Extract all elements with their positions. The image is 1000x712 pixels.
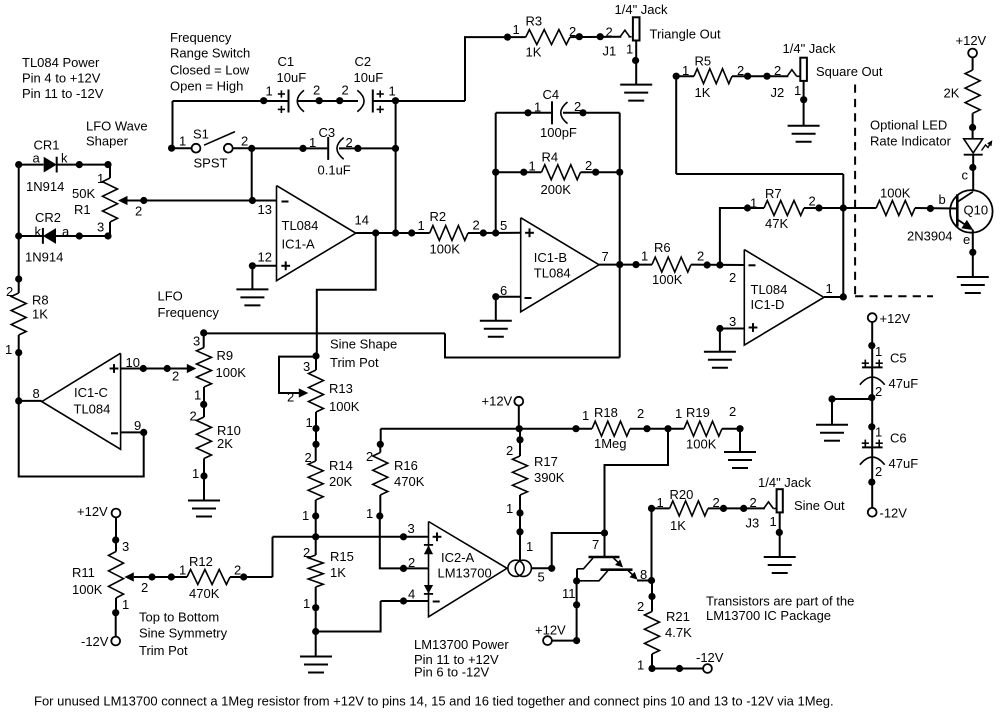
- svg-text:R16: R16: [394, 458, 418, 473]
- svg-text:1: 1: [770, 514, 777, 529]
- svg-text:2: 2: [303, 545, 310, 560]
- svg-text:8: 8: [33, 386, 40, 401]
- svg-text:2: 2: [366, 449, 373, 464]
- svg-text:1: 1: [389, 84, 396, 99]
- svg-text:2K: 2K: [217, 436, 233, 451]
- svg-text:3: 3: [303, 359, 310, 374]
- svg-text:1: 1: [97, 171, 104, 186]
- svg-text:1: 1: [306, 415, 313, 430]
- svg-text:1K: 1K: [695, 85, 711, 100]
- svg-text:3: 3: [122, 539, 129, 554]
- svg-text:k: k: [61, 151, 68, 166]
- svg-text:1: 1: [309, 135, 316, 150]
- svg-text:13: 13: [258, 202, 272, 217]
- svg-text:Trim Pot: Trim Pot: [139, 643, 188, 658]
- svg-text:2: 2: [809, 194, 816, 209]
- svg-text:1K: 1K: [330, 565, 346, 580]
- svg-text:C2: C2: [355, 54, 372, 69]
- svg-text:S1: S1: [193, 127, 209, 142]
- svg-text:2N3904: 2N3904: [907, 229, 953, 244]
- svg-text:Closed = Low: Closed = Low: [170, 63, 250, 78]
- svg-text:R2: R2: [430, 209, 447, 224]
- svg-text:TL084: TL084: [534, 266, 571, 281]
- svg-text:100K: 100K: [652, 272, 683, 287]
- svg-text:-12V: -12V: [81, 634, 109, 649]
- svg-text:3: 3: [193, 334, 200, 349]
- svg-text:1K: 1K: [670, 518, 686, 533]
- svg-text:For unused LM13700 connect a 1: For unused LM13700 connect a 1Meg resist…: [34, 694, 834, 709]
- svg-text:2: 2: [697, 249, 704, 264]
- svg-text:Square Out: Square Out: [816, 64, 883, 79]
- svg-text:10uF: 10uF: [354, 70, 384, 85]
- svg-text:R13: R13: [329, 381, 353, 396]
- svg-text:1: 1: [637, 658, 644, 673]
- svg-text:1: 1: [418, 218, 425, 233]
- svg-text:1: 1: [529, 159, 536, 174]
- svg-text:9: 9: [134, 418, 141, 433]
- svg-text:1Meg: 1Meg: [594, 436, 627, 451]
- svg-text:IC2-A: IC2-A: [441, 550, 475, 565]
- svg-text:LM13700 IC Package: LM13700 IC Package: [706, 608, 831, 623]
- svg-text:2: 2: [313, 83, 320, 98]
- svg-text:47uF: 47uF: [889, 456, 919, 471]
- svg-text:2: 2: [729, 404, 736, 419]
- svg-text:2: 2: [234, 563, 241, 578]
- svg-text:2: 2: [750, 495, 757, 510]
- svg-text:2: 2: [287, 390, 294, 405]
- svg-text:LFO Wave: LFO Wave: [86, 119, 148, 134]
- svg-text:2: 2: [6, 284, 13, 299]
- svg-text:1: 1: [875, 344, 882, 359]
- svg-text:J1: J1: [603, 44, 617, 59]
- svg-text:1: 1: [750, 196, 757, 211]
- svg-text:1N914: 1N914: [26, 179, 64, 194]
- svg-text:C3: C3: [319, 125, 336, 140]
- svg-text:1N914: 1N914: [25, 250, 63, 265]
- svg-text:Pin 11 to -12V: Pin 11 to -12V: [22, 86, 104, 101]
- svg-text:1: 1: [826, 281, 833, 296]
- svg-text:R7: R7: [765, 186, 782, 201]
- svg-text:R6: R6: [654, 240, 671, 255]
- svg-text:100K: 100K: [72, 582, 103, 597]
- svg-text:1: 1: [513, 22, 520, 37]
- svg-text:2: 2: [342, 83, 349, 98]
- svg-text:R9: R9: [217, 348, 234, 363]
- svg-text:1: 1: [626, 41, 633, 56]
- svg-text:R17: R17: [534, 454, 558, 469]
- svg-text:1/4" Jack: 1/4" Jack: [615, 2, 669, 17]
- svg-text:2: 2: [574, 99, 581, 114]
- svg-text:R21: R21: [666, 609, 690, 624]
- svg-text:2: 2: [346, 135, 353, 150]
- svg-text:1K: 1K: [32, 307, 48, 322]
- svg-text:C1: C1: [278, 54, 295, 69]
- svg-text:47K: 47K: [765, 216, 788, 231]
- svg-text:100K: 100K: [216, 365, 247, 380]
- svg-text:IC1-A: IC1-A: [282, 236, 316, 251]
- svg-text:+12V: +12V: [535, 623, 566, 638]
- svg-text:J2: J2: [771, 85, 785, 100]
- svg-text:4: 4: [408, 587, 415, 602]
- svg-text:6: 6: [500, 283, 507, 298]
- svg-text:12: 12: [258, 250, 272, 265]
- svg-text:100K: 100K: [329, 399, 360, 414]
- svg-text:2: 2: [774, 63, 781, 78]
- svg-text:1: 1: [303, 596, 310, 611]
- svg-text:SPST: SPST: [194, 156, 228, 171]
- svg-text:R18: R18: [594, 405, 618, 420]
- svg-text:7: 7: [592, 537, 599, 552]
- svg-text:20K: 20K: [329, 474, 352, 489]
- svg-text:4.7K: 4.7K: [665, 625, 692, 640]
- svg-text:1: 1: [366, 506, 373, 521]
- svg-text:1: 1: [122, 597, 129, 612]
- svg-text:2: 2: [172, 369, 179, 384]
- svg-text:Range Switch: Range Switch: [170, 46, 250, 61]
- svg-text:R1: R1: [74, 202, 91, 217]
- svg-text:2: 2: [729, 270, 736, 285]
- svg-text:2: 2: [875, 384, 882, 399]
- svg-text:Rate Indicator: Rate Indicator: [870, 134, 952, 149]
- svg-text:R8: R8: [32, 293, 49, 308]
- svg-text:Pin 4 to +12V: Pin 4 to +12V: [22, 71, 101, 86]
- svg-text:5: 5: [500, 218, 507, 233]
- svg-text:0.1uF: 0.1uF: [318, 163, 351, 178]
- svg-text:a: a: [33, 151, 41, 166]
- svg-text:TL084: TL084: [751, 282, 788, 297]
- svg-text:+12V: +12V: [77, 504, 108, 519]
- svg-text:2: 2: [141, 580, 148, 595]
- svg-text:7: 7: [602, 249, 609, 264]
- svg-text:e: e: [963, 232, 970, 247]
- svg-text:R4: R4: [542, 150, 559, 165]
- svg-text:R11: R11: [72, 565, 95, 580]
- svg-text:TL084: TL084: [282, 218, 319, 233]
- svg-text:R5: R5: [695, 54, 712, 69]
- svg-text:CR2: CR2: [35, 210, 61, 225]
- svg-text:1: 1: [194, 388, 201, 403]
- svg-text:Frequency: Frequency: [158, 305, 220, 320]
- svg-text:2: 2: [637, 599, 644, 614]
- svg-text:2: 2: [737, 63, 744, 78]
- svg-text:Frequency: Frequency: [170, 30, 232, 45]
- svg-text:1: 1: [266, 84, 273, 99]
- svg-text:2: 2: [190, 409, 197, 424]
- svg-text:390K: 390K: [534, 470, 565, 485]
- svg-text:Pin 6 to -12V: Pin 6 to -12V: [414, 665, 489, 680]
- svg-text:LM13700 Power: LM13700 Power: [414, 637, 509, 652]
- svg-text:3: 3: [408, 521, 415, 536]
- svg-text:b: b: [939, 192, 946, 207]
- svg-text:100K: 100K: [880, 186, 911, 201]
- svg-text:-12V: -12V: [696, 650, 724, 665]
- svg-text:Triangle Out: Triangle Out: [650, 27, 721, 42]
- svg-text:2: 2: [585, 158, 592, 173]
- svg-text:2: 2: [506, 443, 513, 458]
- svg-text:2: 2: [135, 204, 142, 219]
- svg-text:+12V: +12V: [880, 311, 911, 326]
- svg-text:1: 1: [534, 100, 541, 115]
- svg-text:Sine Out: Sine Out: [794, 498, 845, 513]
- svg-text:1: 1: [641, 249, 648, 264]
- svg-text:LM13700: LM13700: [438, 566, 492, 581]
- svg-text:Sine Shape: Sine Shape: [330, 337, 397, 352]
- svg-text:Shaper: Shaper: [86, 134, 129, 149]
- svg-text:1/4" Jack: 1/4" Jack: [758, 475, 812, 490]
- svg-text:1: 1: [794, 83, 801, 98]
- svg-text:3: 3: [729, 314, 736, 329]
- svg-text:k: k: [35, 224, 42, 239]
- svg-text:1: 1: [682, 63, 689, 78]
- svg-text:Transistors are part of the: Transistors are part of the: [706, 594, 854, 609]
- svg-text:10: 10: [126, 355, 140, 370]
- svg-text:2: 2: [473, 218, 480, 233]
- svg-text:IC1-B: IC1-B: [534, 250, 567, 265]
- svg-text:14: 14: [355, 213, 369, 228]
- svg-text:100K: 100K: [430, 242, 461, 257]
- svg-text:Open = High: Open = High: [170, 78, 243, 93]
- svg-text:TL084 Power: TL084 Power: [22, 55, 100, 70]
- svg-text:C4: C4: [543, 87, 560, 102]
- svg-text:1: 1: [657, 495, 664, 510]
- svg-text:a: a: [62, 224, 70, 239]
- svg-text:5: 5: [538, 570, 545, 585]
- svg-text:1: 1: [526, 539, 533, 554]
- svg-text:3: 3: [97, 220, 104, 235]
- svg-text:Trim Pot: Trim Pot: [330, 355, 379, 370]
- svg-text:200K: 200K: [541, 182, 572, 197]
- svg-text:R15: R15: [330, 549, 354, 564]
- svg-text:R20: R20: [670, 487, 694, 502]
- svg-text:IC1-D: IC1-D: [751, 297, 785, 312]
- svg-text:1: 1: [192, 466, 199, 481]
- svg-text:2: 2: [875, 464, 882, 479]
- svg-text:2: 2: [241, 134, 248, 149]
- svg-text:c: c: [962, 168, 969, 183]
- svg-text:2: 2: [606, 24, 613, 39]
- svg-text:100pF: 100pF: [540, 125, 577, 140]
- svg-text:2: 2: [713, 495, 720, 510]
- svg-text:Q10: Q10: [964, 203, 989, 218]
- svg-text:R19: R19: [686, 405, 710, 420]
- svg-text:1: 1: [179, 134, 186, 149]
- svg-text:R3: R3: [526, 14, 543, 29]
- svg-text:LFO: LFO: [158, 289, 183, 304]
- svg-text:+12V: +12V: [956, 33, 987, 48]
- svg-text:-12V: -12V: [880, 506, 908, 521]
- svg-text:47uF: 47uF: [889, 376, 919, 391]
- svg-text:100K: 100K: [686, 437, 717, 452]
- svg-text:C5: C5: [890, 351, 907, 366]
- svg-text:C6: C6: [890, 431, 907, 446]
- svg-text:Optional LED: Optional LED: [870, 118, 947, 133]
- svg-text:1: 1: [675, 406, 682, 421]
- svg-text:1: 1: [302, 508, 309, 523]
- svg-text:J3: J3: [746, 516, 760, 531]
- svg-text:R12: R12: [189, 554, 213, 569]
- svg-text:Top to Bottom: Top to Bottom: [139, 610, 219, 625]
- svg-text:2K: 2K: [944, 86, 960, 101]
- svg-text:2: 2: [305, 450, 312, 465]
- svg-text:1: 1: [875, 425, 882, 440]
- svg-text:2: 2: [637, 406, 644, 421]
- svg-text:11: 11: [562, 586, 576, 601]
- svg-text:10uF: 10uF: [277, 70, 307, 85]
- svg-text:1: 1: [582, 408, 589, 423]
- svg-text:IC1-C: IC1-C: [74, 385, 108, 400]
- svg-text:2: 2: [569, 24, 576, 39]
- svg-text:1: 1: [179, 563, 186, 578]
- svg-text:+12V: +12V: [482, 394, 513, 409]
- svg-text:Sine Symmetry: Sine Symmetry: [139, 626, 228, 641]
- svg-text:2: 2: [408, 555, 415, 570]
- svg-text:1K: 1K: [526, 45, 542, 60]
- svg-text:50K: 50K: [72, 186, 95, 201]
- svg-text:470K: 470K: [189, 586, 220, 601]
- svg-text:1/4" Jack: 1/4" Jack: [783, 41, 837, 56]
- svg-text:8: 8: [640, 567, 647, 582]
- svg-text:1: 1: [506, 501, 513, 516]
- svg-text:470K: 470K: [394, 474, 425, 489]
- svg-text:R14: R14: [329, 458, 353, 473]
- svg-text:1: 1: [5, 342, 12, 357]
- svg-text:TL084: TL084: [74, 402, 111, 417]
